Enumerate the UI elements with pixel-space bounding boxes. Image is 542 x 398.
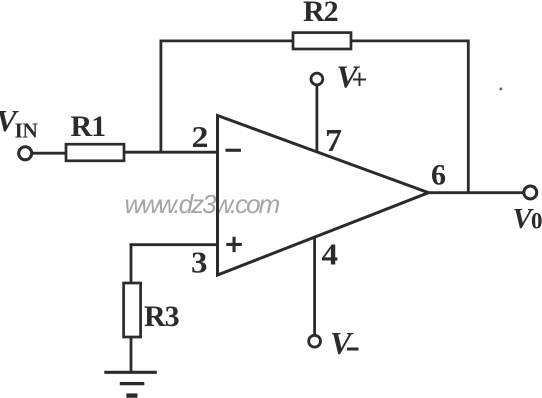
svg-text:V: V (330, 325, 354, 361)
svg-text:R1: R1 (71, 110, 106, 143)
wire pin 3 horizontal (130, 243, 217, 246)
wire feedback vertical riser at node after R1 (159, 40, 162, 153)
wire R3 bottom to ground (130, 337, 133, 372)
svg-text:7: 7 (325, 122, 342, 158)
wire input terminal to R1 (32, 152, 67, 155)
op-amp U1 triangle (218, 116, 429, 276)
terminal output V0 (524, 186, 537, 199)
svg-text:4: 4 (322, 237, 339, 272)
terminal V- (309, 335, 321, 347)
svg-text:0: 0 (531, 209, 542, 234)
wire pin 3 corner down to R3 (130, 243, 133, 283)
ground (104, 372, 157, 395)
wire top to R2 left (160, 40, 294, 43)
svg-text:R3: R3 (144, 300, 179, 333)
op-amp non-inverting input plus sign (226, 237, 242, 253)
svg-text:3: 3 (191, 245, 208, 280)
resistor R1 (66, 144, 124, 161)
svg-text:+: + (352, 65, 368, 96)
label V0 (513, 203, 542, 235)
terminal input VIN (19, 147, 32, 160)
wire R1 to op-amp pin 2 (124, 151, 216, 154)
wire op-amp output pin 6 to output terminal (428, 191, 525, 194)
wire pin 4 down to V- terminal (313, 237, 316, 335)
svg-text:6: 6 (431, 159, 446, 192)
svg-text:2: 2 (192, 119, 209, 154)
svg-text:www.dz3w.com: www.dz3w.com (125, 189, 280, 219)
label V+ (337, 59, 368, 97)
wire V+ terminal down to pin 7 (315, 86, 318, 153)
resistor R3 (124, 283, 141, 337)
terminal V+ (311, 73, 323, 85)
speck artifact (500, 88, 503, 91)
svg-text:IN: IN (15, 119, 39, 143)
op-amp inverting input minus sign (226, 149, 242, 152)
label V- (330, 325, 359, 361)
wire right vertical down to output node (467, 40, 470, 193)
wire R2 right to top-right corner (351, 40, 468, 43)
svg-text:R2: R2 (303, 0, 338, 28)
resistor R2 (293, 33, 351, 49)
label VIN (0, 103, 38, 143)
